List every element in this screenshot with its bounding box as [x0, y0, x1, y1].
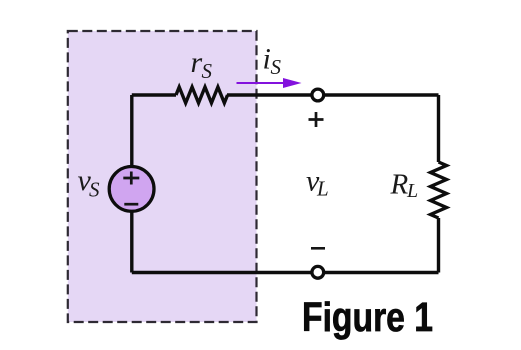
svg-text:Figure 1: Figure 1 — [302, 294, 433, 340]
wire bottom — [132, 271, 439, 274]
terminal node bottom — [312, 266, 324, 278]
wire right lower — [437, 218, 440, 273]
svg-text:S: S — [202, 59, 213, 83]
minus mark at load — [311, 247, 325, 250]
wire right — [437, 95, 440, 162]
terminal node top — [312, 89, 324, 101]
label RL — [390, 169, 419, 203]
svg-text:L: L — [316, 177, 329, 201]
wire top — [132, 93, 439, 96]
label vS — [78, 164, 101, 202]
resistor RL — [431, 162, 447, 218]
wire left — [130, 95, 133, 273]
label rS — [191, 46, 213, 83]
resistor rS — [176, 87, 228, 103]
svg-text:S: S — [271, 55, 282, 79]
voltage source vS — [109, 167, 154, 212]
label vL — [306, 165, 329, 201]
source box (dashed Thevenin boundary) — [68, 31, 257, 322]
svg-text:L: L — [406, 180, 418, 202]
label iS — [263, 43, 282, 80]
svg-text:S: S — [89, 178, 100, 202]
current arrow iS — [237, 78, 302, 88]
plus mark at load — [309, 112, 324, 127]
svg-text:R: R — [390, 169, 409, 201]
